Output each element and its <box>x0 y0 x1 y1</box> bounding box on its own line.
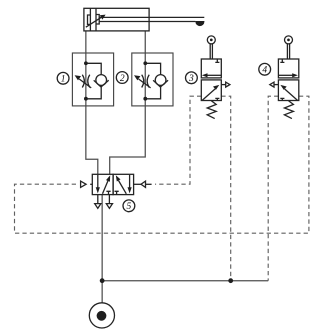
wire cylinder right port to flow control 2 and down to valve 5 port 2 <box>110 31 146 175</box>
valve 5 right box down arrow <box>129 175 131 189</box>
flow control 1 adjust arrow <box>79 79 91 88</box>
flow control 1 check valve seat <box>94 80 109 87</box>
flow control 2 top junction <box>143 61 147 65</box>
valve 5 right position box <box>113 174 134 194</box>
valve 5 exhaust stub left <box>97 195 99 204</box>
valve 4 actuator stem <box>287 44 289 59</box>
valve 4 flow arrow bottom box (diagonal) <box>285 89 298 100</box>
valve 5 right box diagonal arrow <box>119 181 127 194</box>
valve 4 flow arrow top box (right) <box>278 74 293 76</box>
flow control 1 throttle arcs <box>82 75 90 88</box>
flow control 2 bottom junction <box>143 97 147 101</box>
wire cylinder left port to flow control 1 and down to valve 5 port 4 <box>86 31 98 175</box>
cylinder right cushion spigot <box>96 15 99 25</box>
svg-text:5: 5 <box>127 202 132 212</box>
flow control 2 throttle arcs <box>142 75 150 88</box>
valve 5 right pilot stub <box>134 183 141 185</box>
label 2 <box>116 72 128 84</box>
valve 3 flow arrow top box (left) <box>206 74 221 76</box>
valve 4 roller actuator <box>285 36 293 44</box>
svg-text:3: 3 <box>188 74 194 84</box>
flow control 2 check valve seat <box>153 80 168 87</box>
valve 3 return spring <box>207 101 216 119</box>
cylinder left cushion spigot <box>88 15 91 24</box>
cylinder A body <box>84 8 149 31</box>
label 3 <box>186 72 198 84</box>
flow control 2 check branch wire <box>145 63 160 99</box>
valve 3 roller actuator <box>207 36 215 44</box>
wire supply line from valve 5 port 1 down to source <box>101 195 103 303</box>
cylinder piston rod <box>99 17 204 21</box>
cylinder rod end striker <box>195 21 204 26</box>
valve 4 top position box <box>278 59 298 78</box>
valve 5 right pilot tail stub <box>146 183 152 185</box>
flow control 2 adjust arrow <box>139 79 151 88</box>
valve 5 exhaust stub right <box>108 195 110 204</box>
flow control valve 1 enclosure <box>72 53 113 106</box>
valve 4 bottom position box <box>278 80 298 101</box>
valve 5 left position box <box>92 174 113 194</box>
flow control 1 bottom junction <box>84 97 88 101</box>
valve 5 exhaust triangle right <box>106 204 112 209</box>
valve 5 exhaust triangle left <box>95 204 101 209</box>
valve 5 left pilot stub <box>90 183 92 185</box>
valve 5 right pilot triangle <box>141 181 146 187</box>
compressed air source <box>89 303 114 328</box>
valve 3 bottom position box <box>201 80 221 101</box>
svg-text:2: 2 <box>120 74 125 84</box>
valve 5 blocked port bottom left box <box>106 191 110 194</box>
svg-text:1: 1 <box>61 75 66 85</box>
valve 3 actuator stem <box>210 44 212 59</box>
cylinder piston <box>90 8 96 31</box>
valve 3 blocked port bottom-right <box>215 98 219 100</box>
flow control 1 top junction <box>84 61 88 65</box>
valve 4 return spring <box>284 101 293 119</box>
flow control valve 2 enclosure <box>132 53 173 106</box>
pilot line (dashed) valve 3 output to valve 5 right pilot <box>155 96 201 184</box>
valve 5 left pilot triangle <box>81 181 87 187</box>
valve 3 blocked port top-right <box>215 59 219 62</box>
wire supply distribution horizontal <box>102 280 268 282</box>
junction supply at source riser <box>100 278 105 283</box>
valve 4 blocked port bottom-left <box>280 98 284 100</box>
valve 5 left box diagonal arrow <box>103 180 109 194</box>
cylinder cushion adjust arrow <box>86 18 101 28</box>
valve 5 blocked port bottom right box <box>115 191 119 194</box>
label 4 <box>259 63 271 75</box>
valve 3 top position box <box>201 59 221 78</box>
junction supply to valve 3 <box>228 278 233 283</box>
supply line (dashed) to valve 4 <box>268 96 278 281</box>
pilot line (dashed) valve 4 output to valve 5 left pilot: right vertical, bottom run, left vertical, top run <box>15 96 309 233</box>
label 5 <box>123 200 135 212</box>
valve 5 left box down arrow <box>97 175 99 189</box>
valve 3 exhaust port <box>221 84 225 86</box>
flow control 1 check branch wire <box>86 63 101 99</box>
flow control 1 check valve ball <box>96 75 107 86</box>
svg-text:4: 4 <box>262 66 267 76</box>
flow control 2 check valve ball <box>155 75 166 86</box>
valve 3 flow arrow bottom box (diagonal) <box>202 89 215 100</box>
valve 4 blocked port top-left <box>280 59 284 62</box>
valve 4 exhaust port <box>274 84 278 86</box>
label 1 <box>57 72 69 84</box>
supply line (dashed) to valve 3 <box>221 96 230 281</box>
